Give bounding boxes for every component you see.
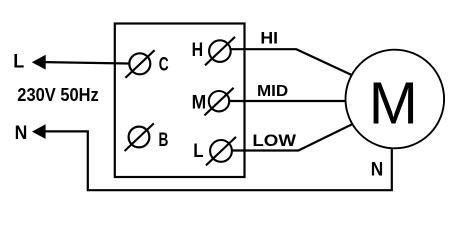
terminal C xyxy=(125,50,154,78)
svg-text:C: C xyxy=(159,55,169,76)
wire MID (M terminal to motor) xyxy=(229,100,345,102)
terminal M xyxy=(204,88,233,116)
terminal H label xyxy=(192,40,204,61)
terminal C label xyxy=(159,55,169,76)
svg-text:M: M xyxy=(192,92,207,113)
node N label (motor) xyxy=(371,159,384,181)
node L label xyxy=(13,51,24,73)
svg-text:L: L xyxy=(193,141,204,162)
value label 230V 50Hz xyxy=(17,85,99,105)
wire LOW (L terminal to motor) xyxy=(232,124,352,150)
wire L (line phase) xyxy=(32,55,130,70)
svg-text:HI: HI xyxy=(260,29,278,47)
svg-text:H: H xyxy=(192,40,204,61)
wire N (neutral: arrow, down, along bottom, up to motor) xyxy=(32,124,392,190)
net label MID xyxy=(257,83,288,100)
terminal M label xyxy=(192,92,207,113)
wire HI (H terminal to motor) xyxy=(231,49,352,75)
svg-text:230V 50Hz: 230V 50Hz xyxy=(17,85,99,105)
svg-text:LOW: LOW xyxy=(252,132,296,150)
svg-text:B: B xyxy=(159,130,169,151)
svg-text:MID: MID xyxy=(257,83,288,100)
svg-text:L: L xyxy=(13,51,24,73)
svg-text:N: N xyxy=(371,159,384,181)
terminal H xyxy=(205,37,235,65)
terminal L label xyxy=(193,141,204,162)
terminal L xyxy=(206,137,236,165)
net label LOW xyxy=(252,132,296,150)
net label HI xyxy=(260,29,278,47)
motor U1 xyxy=(346,50,445,149)
terminal B xyxy=(125,123,154,151)
svg-text:N: N xyxy=(15,122,28,144)
node N label (left) xyxy=(15,122,28,144)
terminal B label xyxy=(159,130,169,151)
switch box xyxy=(115,24,245,178)
svg-text:M: M xyxy=(369,70,418,136)
